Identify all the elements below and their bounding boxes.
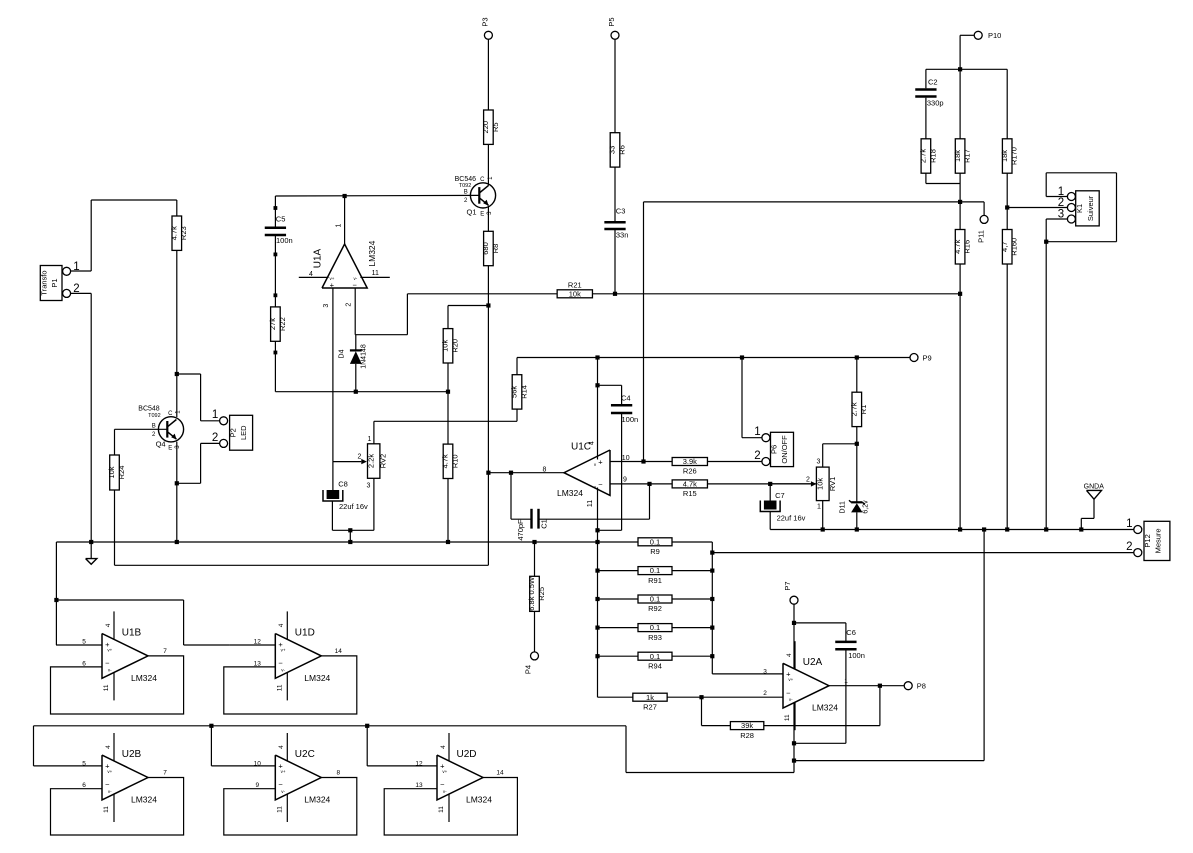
svg-text:100n: 100n [848,651,865,660]
svg-text:7: 7 [163,648,167,655]
svg-text:Suiveur: Suiveur [1086,195,1095,221]
svg-text:v+: v+ [107,647,112,652]
svg-text:2.7k: 2.7k [850,402,859,416]
svg-text:2: 2 [346,303,353,307]
svg-text:3: 3 [323,304,330,308]
svg-text:v+: v+ [281,769,286,774]
svg-text:3: 3 [367,482,371,489]
svg-text:18k: 18k [1000,150,1009,162]
svg-text:1: 1 [754,426,760,438]
svg-text:14: 14 [335,648,343,655]
svg-text:2: 2 [1126,541,1132,553]
svg-text:3.9k: 3.9k [683,457,697,466]
svg-text:680: 680 [481,242,490,255]
svg-text:2: 2 [1058,197,1064,209]
svg-text:P12: P12 [1143,534,1152,547]
svg-text:7: 7 [163,770,167,777]
svg-text:11: 11 [784,714,791,721]
svg-text:C2: C2 [928,77,938,86]
svg-text:P11: P11 [976,230,985,243]
svg-text:v+: v+ [281,647,286,652]
svg-text:LM324: LM324 [304,673,330,683]
svg-text:22uf 16v: 22uf 16v [777,514,806,523]
svg-text:LM324: LM324 [131,673,157,683]
svg-text:R17: R17 [963,149,972,163]
svg-text:P2: P2 [228,428,237,437]
svg-text:P10: P10 [988,31,1001,40]
svg-text:Q4: Q4 [156,440,166,449]
svg-text:C7: C7 [775,491,785,500]
svg-text:GNDA: GNDA [1084,483,1105,490]
svg-text:ON/OFF: ON/OFF [780,435,789,464]
svg-text:4: 4 [588,441,595,445]
svg-text:C4: C4 [621,393,631,402]
svg-text:P6: P6 [769,445,778,454]
svg-text:LM324: LM324 [466,795,492,805]
svg-text:R170: R170 [1010,147,1019,165]
svg-text:R1: R1 [859,405,868,415]
svg-text:1k: 1k [646,693,654,702]
svg-text:U2C: U2C [295,749,315,760]
svg-text:39k: 39k [741,721,753,730]
svg-text:T092: T092 [148,413,161,419]
svg-text:11: 11 [372,270,379,277]
svg-text:0.1: 0.1 [650,566,660,575]
svg-text:Q1: Q1 [466,208,476,217]
svg-text:1N4148: 1N4148 [360,344,367,369]
svg-text:4.7k: 4.7k [683,480,697,489]
svg-text:P7: P7 [783,581,792,590]
svg-text:D4: D4 [339,349,346,358]
svg-text:−: − [786,688,791,697]
svg-text:v-: v- [108,789,112,794]
svg-text:Transfo: Transfo [40,270,49,295]
svg-text:P8: P8 [917,682,926,691]
svg-text:C6: C6 [846,628,856,637]
svg-text:LM324: LM324 [304,795,330,805]
svg-text:R22: R22 [278,317,287,331]
svg-text:14: 14 [496,770,504,777]
svg-text:P5: P5 [607,17,616,26]
svg-text:R21: R21 [568,280,582,289]
svg-text:E: E [480,212,484,218]
svg-text:LED: LED [239,425,248,440]
svg-text:470pF: 470pF [516,519,525,541]
svg-text:−: − [278,659,283,668]
svg-text:v-: v- [789,697,793,702]
svg-text:330p: 330p [927,99,944,108]
svg-text:10k: 10k [569,289,581,298]
svg-text:11: 11 [438,806,445,813]
svg-text:1: 1 [817,503,821,510]
svg-text:11: 11 [103,684,110,691]
svg-text:−: − [598,480,603,489]
svg-text:LM324: LM324 [812,703,838,713]
svg-text:0.1: 0.1 [650,595,660,604]
svg-text:R92: R92 [648,604,662,613]
svg-text:3: 3 [763,669,767,676]
svg-text:P3: P3 [481,17,490,26]
svg-text:C: C [168,411,173,417]
svg-text:4,7: 4,7 [1000,242,1009,252]
svg-text:R27: R27 [643,702,657,711]
svg-text:11: 11 [276,684,283,691]
svg-text:1: 1 [335,223,342,227]
svg-text:11: 11 [276,806,283,813]
svg-text:4: 4 [105,623,112,627]
svg-text:R8: R8 [491,244,500,254]
svg-text:10k: 10k [107,466,116,478]
svg-text:C: C [480,177,485,183]
svg-text:2: 2 [358,453,362,460]
svg-text:56k: 56k [510,386,519,398]
svg-text:R26: R26 [683,467,697,476]
svg-text:LM324: LM324 [557,488,583,498]
svg-text:−: − [440,780,445,789]
svg-text:0.1: 0.1 [650,537,660,546]
svg-text:6.8k 0.5W: 6.8k 0.5W [527,576,536,611]
svg-text:R94: R94 [648,661,662,670]
svg-text:B: B [152,424,156,430]
svg-text:2: 2 [754,450,760,462]
svg-text:v+: v+ [788,677,793,682]
svg-text:27k: 27k [268,318,277,330]
svg-text:22uf 16v: 22uf 16v [339,502,368,511]
svg-text:18k: 18k [953,150,962,162]
svg-text:4: 4 [278,745,285,749]
svg-text:−: − [278,780,283,789]
svg-text:220: 220 [481,121,490,134]
svg-text:R20: R20 [450,339,459,353]
svg-text:1: 1 [367,436,371,443]
svg-text:LM324: LM324 [131,795,157,805]
svg-text:10: 10 [622,455,630,462]
svg-text:R160: R160 [1010,238,1019,256]
svg-text:3: 3 [816,459,820,466]
svg-text:1: 1 [844,678,848,685]
svg-text:v-: v- [108,667,112,672]
svg-text:R93: R93 [648,633,662,642]
svg-text:BC548: BC548 [138,406,160,413]
svg-text:9: 9 [255,782,259,789]
svg-text:33n: 33n [616,230,629,239]
svg-text:4: 4 [440,745,447,749]
svg-text:2: 2 [212,432,218,444]
svg-text:R9: R9 [650,547,660,556]
svg-text:RV2: RV2 [379,454,388,468]
svg-text:R23: R23 [179,226,188,240]
svg-text:1: 1 [212,409,218,421]
svg-text:−: − [105,659,110,668]
svg-text:v+: v+ [107,769,112,774]
svg-text:v+: v+ [442,769,447,774]
svg-text:R28: R28 [740,731,754,740]
svg-text:v-: v- [281,789,285,794]
svg-text:8: 8 [336,770,340,777]
svg-text:U2B: U2B [122,749,142,760]
svg-text:R25: R25 [537,587,546,601]
svg-text:LM324: LM324 [367,240,377,266]
svg-text:4: 4 [786,653,793,657]
svg-text:U1A: U1A [312,248,323,268]
svg-text:8: 8 [543,467,547,474]
svg-text:R5: R5 [491,122,500,132]
svg-text:3: 3 [1058,208,1064,220]
svg-text:U1B: U1B [122,627,142,638]
svg-text:100n: 100n [622,415,639,424]
svg-text:P1: P1 [50,278,59,287]
svg-text:U2A: U2A [803,657,823,668]
svg-text:2: 2 [73,283,79,295]
svg-text:10k: 10k [441,340,450,352]
svg-text:13: 13 [415,782,423,789]
svg-text:R10: R10 [450,454,459,468]
svg-text:B: B [464,190,468,196]
svg-text:K1: K1 [1075,204,1084,213]
svg-text:R24: R24 [117,466,126,480]
svg-text:v-: v- [443,789,447,794]
svg-text:1: 1 [1126,518,1132,530]
svg-text:2.7k: 2.7k [919,149,928,163]
svg-text:T092: T092 [459,183,472,189]
svg-text:C5: C5 [276,214,286,223]
svg-text:4: 4 [278,623,285,627]
svg-text:6: 6 [82,782,86,789]
svg-text:−: − [353,280,358,289]
svg-text:R14: R14 [519,385,528,399]
svg-text:v-: v- [281,667,285,672]
svg-text:10k: 10k [815,478,824,490]
svg-text:C1: C1 [540,519,549,529]
svg-text:P4: P4 [524,665,533,674]
svg-text:2: 2 [763,690,767,697]
svg-text:4: 4 [309,271,313,278]
svg-text:1: 1 [73,261,79,273]
svg-text:0.1: 0.1 [650,652,660,661]
svg-text:R91: R91 [648,576,662,585]
svg-text:+: + [598,458,603,467]
svg-text:R16: R16 [963,240,972,254]
svg-text:9: 9 [623,477,627,484]
svg-text:100n: 100n [276,236,293,245]
svg-text:2: 2 [806,477,810,484]
svg-text:11: 11 [587,500,594,507]
svg-text:+: + [330,280,335,289]
svg-text:R6: R6 [617,145,626,155]
svg-text:U1D: U1D [295,627,315,638]
svg-text:6,2v: 6,2v [863,500,870,514]
svg-text:Mesure: Mesure [1153,528,1162,553]
svg-text:2.2k: 2.2k [366,454,375,468]
svg-text:P9: P9 [923,353,932,362]
svg-text:33: 33 [608,146,617,154]
svg-text:C8: C8 [338,480,348,489]
svg-text:E: E [168,446,172,452]
svg-text:C3: C3 [616,207,626,216]
svg-text:U2D: U2D [456,749,476,760]
svg-text:4.7k: 4.7k [170,226,179,240]
svg-text:R15: R15 [683,489,697,498]
svg-text:0.1: 0.1 [650,623,660,632]
svg-text:−: − [105,780,110,789]
svg-text:D11: D11 [840,501,847,513]
svg-text:4: 4 [105,745,112,749]
svg-text:4.7k: 4.7k [441,454,450,468]
svg-text:R18: R18 [928,149,937,163]
svg-text:4.7k: 4.7k [953,239,962,253]
svg-text:RV1: RV1 [828,477,837,491]
svg-text:11: 11 [103,806,110,813]
